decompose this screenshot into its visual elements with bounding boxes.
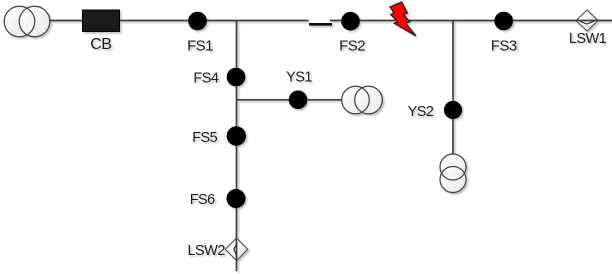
LSW2 contact mark (small v inside diamond): [234, 243, 237, 256]
load switch LSW2 (diamond, drawn under feeder line): [225, 238, 247, 261]
transformer T-YS1 (two overlapping circles, horizontal): [342, 86, 383, 114]
fault switch FS3 (black dot on bus): [495, 12, 513, 30]
svg-text:LSW2: LSW2: [188, 243, 226, 259]
svg-text:FS6: FS6: [190, 192, 215, 208]
svg-text:FS2: FS2: [339, 38, 365, 55]
svg-text:FS3: FS3: [491, 38, 517, 55]
fault switch FS4 (black dot on left feeder): [227, 68, 245, 86]
wire: source to CB: [50, 20, 84, 22]
wire: CB to open point (main bus, passes FS1 and branch A): [119, 20, 309, 22]
wire: right bus from open point to right edge (passes FS2, fault, branch B, FS3, LSW1): [330, 20, 612, 22]
circuit breaker CB (black rectangle): [83, 10, 120, 32]
open point blade (offset bar of normally-open switch): [309, 23, 332, 26]
svg-text:CB: CB: [90, 36, 111, 53]
transformer T-source (two overlapping circles, top-left): [4, 6, 50, 37]
wire: branch to YS1 transformer: [237, 99, 343, 101]
switch YS2 (black dot on right feeder): [444, 101, 461, 118]
svg-text:FS5: FS5: [192, 130, 217, 146]
fault switch FS2 (black dot on bus): [342, 12, 360, 30]
transformer T-YS2 (two overlapping circles, vertical): [440, 154, 466, 193]
svg-text:LSW1: LSW1: [569, 31, 607, 47]
fault switch FS6 (black dot on left feeder): [227, 190, 245, 208]
switch YS1 (black dot on branch): [289, 91, 307, 109]
wire: right feeder vertical to YS2 transformer: [452, 21, 454, 155]
fault switch FS1 (black dot on bus): [189, 12, 207, 30]
load switch LSW1 (diamond, drawn under bus line): [576, 10, 598, 31]
svg-text:YS1: YS1: [286, 70, 312, 86]
LSW1 contact mark (small v inside diamond): [580, 21, 594, 24]
wire: left feeder vertical (passes FS4, FS5, FS6, LSW2): [236, 21, 238, 272]
svg-text:FS1: FS1: [187, 38, 213, 55]
fault symbol (red lightning bolt): [390, 2, 416, 36]
svg-text:FS4: FS4: [193, 71, 218, 87]
svg-text:YS2: YS2: [408, 104, 434, 120]
fault switch FS5 (black dot on left feeder): [227, 127, 245, 145]
